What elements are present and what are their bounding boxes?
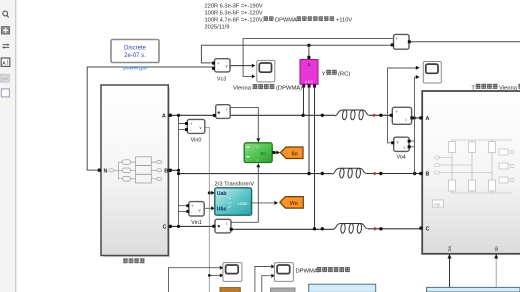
goto tag Iin xyxy=(280,147,303,159)
Y-cap wire b xyxy=(308,86,310,174)
palette icon: arrows xyxy=(3,45,10,48)
wire W2: scope feed from top measure block xyxy=(243,39,392,77)
svg-text:Vin1: Vin1 xyxy=(191,220,202,226)
wire cyan out to Vin tag xyxy=(252,202,274,204)
svg-text:DPWMA: DPWMA xyxy=(275,18,297,24)
svg-text:Vin: Vin xyxy=(290,201,298,207)
svg-text:Sa: Sa xyxy=(447,246,452,252)
svg-text:a: a xyxy=(257,145,259,149)
goto tag Vin xyxy=(280,197,304,209)
wire C measure signal to green block bottom xyxy=(232,167,259,222)
scope DPWMA 1 xyxy=(223,263,242,282)
svg-text:100R 6.3e-6F =+-120V: 100R 6.3e-6F =+-120V xyxy=(205,11,263,17)
wire phase A xyxy=(170,114,335,116)
svg-text:A: A xyxy=(162,113,166,119)
svg-text:B: B xyxy=(164,168,168,174)
wire Vo4 out to scope2 in1 xyxy=(388,68,416,143)
svg-text:+110V: +110V xyxy=(336,18,352,24)
voltage measure block Vc3 xyxy=(212,59,230,83)
wire Vin1 out to Ubc xyxy=(205,207,212,209)
svg-text:N: N xyxy=(104,168,108,174)
red arrow B xyxy=(374,172,378,176)
junction dot C line x322 xyxy=(321,227,324,230)
wire W1: Y-cap neutral to Vc3 plus and current block xyxy=(201,45,391,63)
three-phase source block xyxy=(101,85,170,257)
svg-text:100R 4.7e-6F =+-120V,: 100R 4.7e-6F =+-120V, xyxy=(205,18,265,24)
wire C after coil xyxy=(368,228,422,230)
svg-text:A B C: A B C xyxy=(305,80,314,84)
svg-text:i: i xyxy=(226,221,227,226)
Y-cap wire a xyxy=(303,86,305,115)
wire phase B xyxy=(170,170,332,173)
svg-text:A: A xyxy=(426,116,430,122)
svg-text:Uab: Uab xyxy=(217,191,227,197)
svg-text:Discrete: Discrete xyxy=(124,45,147,51)
svg-text:C: C xyxy=(163,225,167,231)
wire Vc3 out to Vienna scope xyxy=(230,65,252,67)
voltage measure block Vin0 xyxy=(185,119,205,143)
svg-text:Vienna: Vienna xyxy=(499,85,518,91)
svg-text:C: C xyxy=(426,227,430,233)
svg-text:DPWMA: DPWMA xyxy=(296,269,318,275)
svg-text:Hys: Hys xyxy=(434,203,440,207)
inductor phase B xyxy=(332,168,367,178)
svg-text:powergui: powergui xyxy=(123,66,147,72)
junction dot A line x322 xyxy=(321,114,324,117)
svg-text:A: A xyxy=(2,61,6,67)
bottom cut brown block xyxy=(220,288,240,292)
red arrow C xyxy=(374,227,378,231)
svg-text:Ubc: Ubc xyxy=(217,207,227,213)
voltage measure block TRB top right xyxy=(391,34,411,49)
wire green out to Iin tag xyxy=(275,152,276,154)
wire gate Sb from bottom box xyxy=(495,256,497,288)
svg-text:Sb: Sb xyxy=(494,246,499,252)
Y-cap wire c xyxy=(314,86,316,229)
junction A xyxy=(379,114,382,117)
port stub N xyxy=(98,169,101,172)
inductor phase C xyxy=(333,223,368,233)
current measure block A (B0) xyxy=(213,105,230,119)
palette icon: zoom magnifier xyxy=(3,11,9,18)
svg-text:Vin0: Vin0 xyxy=(191,138,202,144)
wire A to port xyxy=(412,117,422,119)
vertical tap wire with measurement branches xyxy=(178,115,180,226)
wire gate Sa from bottom box xyxy=(449,256,451,288)
wire taps to Vin0 xyxy=(179,124,188,130)
wire Vin0 out down xyxy=(205,127,210,292)
wire magenta top stub xyxy=(308,45,310,58)
svg-text:c: c xyxy=(257,159,259,163)
junction to 2/3 transform Uab xyxy=(208,191,211,194)
scope Vienna (top middle) xyxy=(257,60,275,82)
source label xyxy=(123,258,128,263)
inductor phase A xyxy=(335,110,370,120)
wire current A to green block top xyxy=(231,108,259,139)
left toolbar palette xyxy=(0,0,15,292)
wire TRB out right xyxy=(410,41,520,43)
junction dot B line x322 xyxy=(321,172,324,175)
wire bottom into scope DPWMA1 in1 xyxy=(169,268,220,292)
svg-text:2025/11/9: 2025/11/9 xyxy=(205,25,230,31)
bottom cyan box 2 xyxy=(427,287,520,292)
wire B after coil xyxy=(367,173,422,175)
svg-text:B: B xyxy=(426,171,430,177)
svg-text:Uabc: Uabc xyxy=(238,201,250,207)
svg-text:Y: Y xyxy=(322,71,326,77)
palette icon: empty square xyxy=(1,89,9,97)
source interior schematic xyxy=(109,157,162,183)
current measure block B1 on phase A xyxy=(390,107,414,124)
current measure block on phase C xyxy=(212,219,232,233)
green measurement block xyxy=(244,143,275,163)
scope DPWMA 2 xyxy=(274,263,293,282)
svg-text:i: i xyxy=(406,118,407,123)
palette icon: annotation A box xyxy=(1,58,10,66)
svg-text:abc: abc xyxy=(260,152,266,156)
wire A after coil xyxy=(370,114,393,116)
scope top right xyxy=(423,62,441,84)
Y capacitor block xyxy=(300,60,318,88)
svg-text:Vo4: Vo4 xyxy=(397,155,406,161)
voltage measure block Vo4 xyxy=(391,137,410,160)
voltage measure block Vin1 xyxy=(186,202,204,226)
bottom cut gray block xyxy=(271,288,296,292)
svg-text:Iin: Iin xyxy=(292,151,298,157)
2/3 transform block xyxy=(215,188,252,215)
wire N to Vc3 minus xyxy=(87,67,213,170)
wire taps to Vin1 xyxy=(179,206,189,212)
palette icon: add square xyxy=(1,27,9,35)
svg-text:220R 6.3e-3F =+-190V: 220R 6.3e-3F =+-190V xyxy=(205,4,263,10)
svg-text:Vc3: Vc3 xyxy=(217,77,226,83)
powergui block xyxy=(111,40,159,63)
svg-text:(DPWMA): (DPWMA) xyxy=(276,86,302,92)
vienna interior schematic xyxy=(433,140,515,207)
svg-text:Vienna: Vienna xyxy=(233,86,252,92)
svg-text:T: T xyxy=(471,85,475,91)
wire bottom into scope DPWMA2 xyxy=(255,267,271,292)
bottom cyan box 1 xyxy=(309,284,376,292)
port stub A source xyxy=(169,114,172,117)
svg-text:i: i xyxy=(226,106,227,111)
svg-text:(RC): (RC) xyxy=(338,71,350,77)
wire Vo4 electrical to A and B xyxy=(409,77,414,174)
T-type Vienna rectifier block xyxy=(422,91,520,254)
red arrow A xyxy=(373,113,377,117)
svg-text:2e-07 s.: 2e-07 s. xyxy=(124,53,146,59)
palette icon: disabled image xyxy=(1,74,10,82)
svg-text:2/3 TransformV: 2/3 TransformV xyxy=(215,181,255,187)
junction on W1 at magenta top xyxy=(307,44,310,47)
wire phase C xyxy=(170,226,333,229)
